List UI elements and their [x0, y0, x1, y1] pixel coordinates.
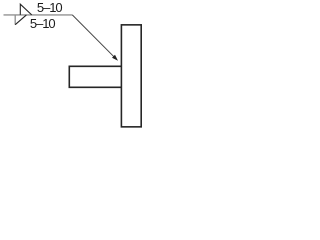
fillet weld symbol, arrow side (top triangle)	[20, 4, 31, 15]
fillet weld symbol, other side (bottom triangle) vertical leg	[14, 15, 16, 25]
horizontal plate (left rectangle, open at the right where it meets the vertical plate)	[69, 66, 121, 87]
arrow line	[72, 15, 115, 58]
weld reference line	[4, 14, 73, 16]
vertical plate (right rectangle)	[121, 25, 141, 127]
bottom triangle hypotenuse	[15, 15, 26, 25]
weld size text above reference line	[37, 0, 62, 15]
weld size text below reference line	[30, 16, 55, 31]
arrowhead	[112, 55, 118, 61]
